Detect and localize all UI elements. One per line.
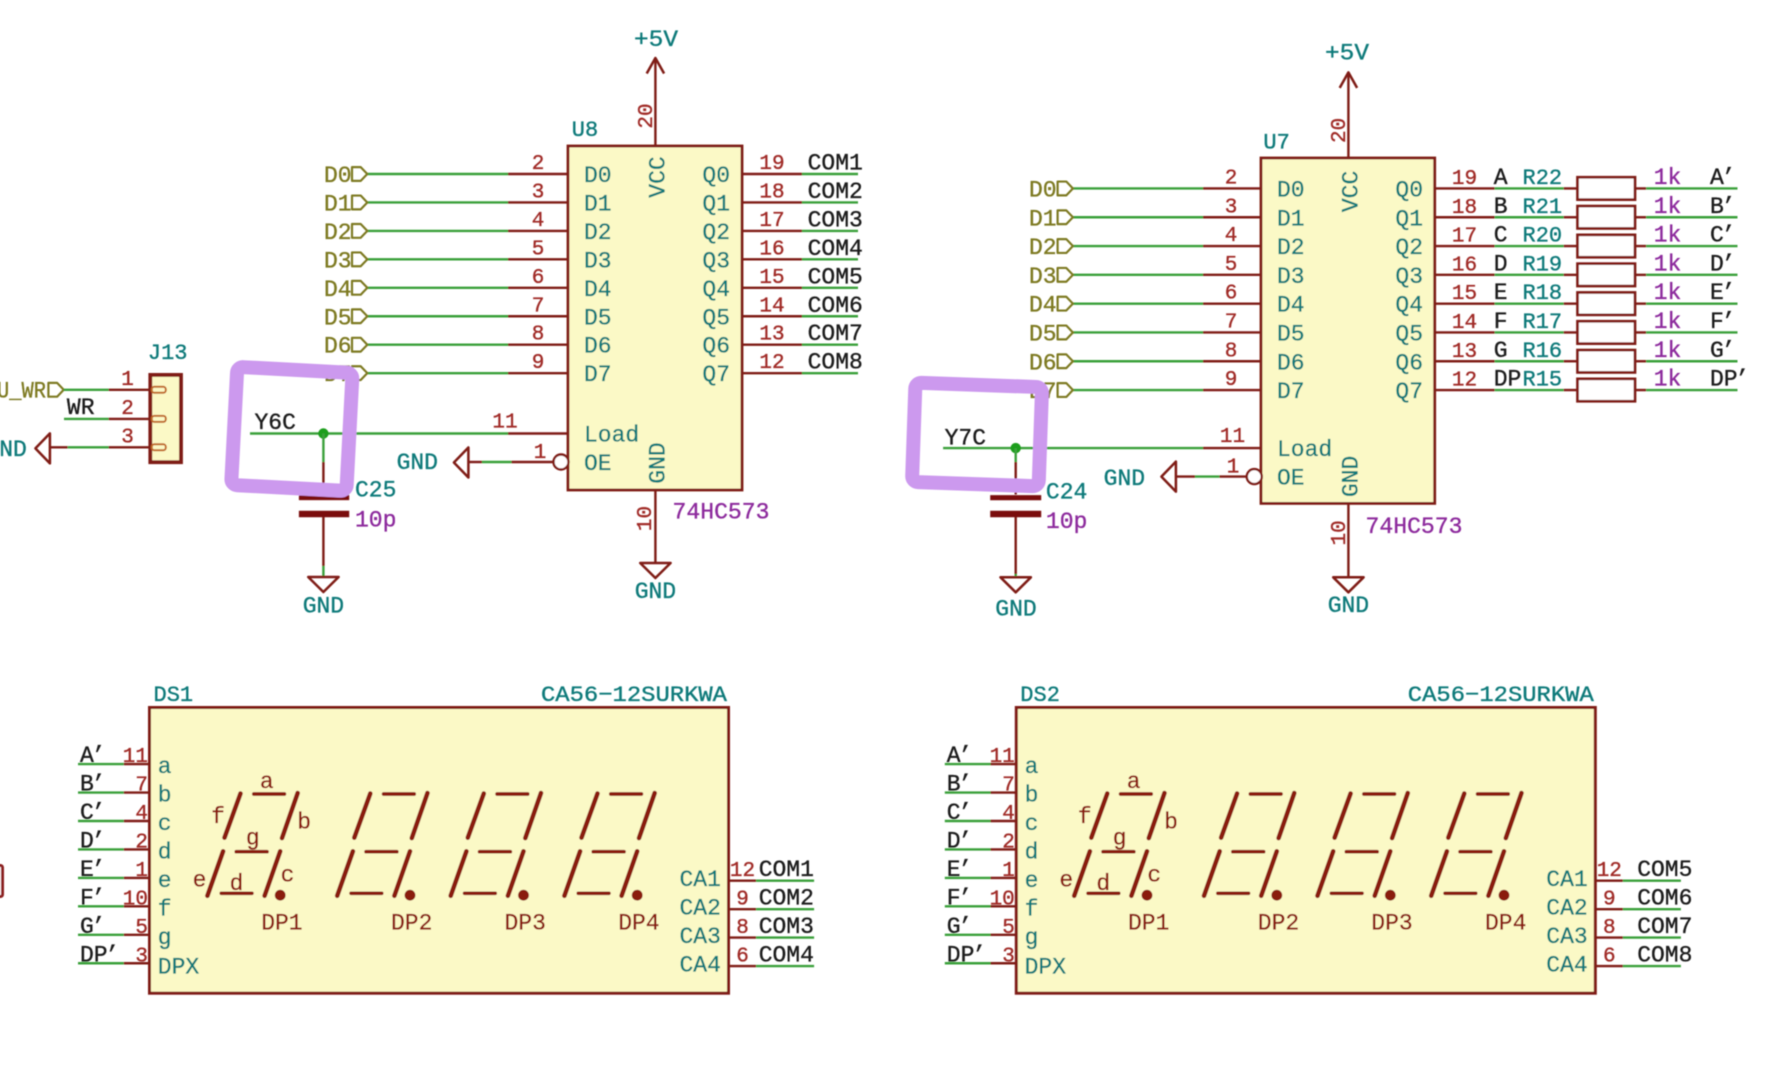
svg-text:DP: DP — [1494, 367, 1522, 393]
U8 pin 16 (Q3) — [702, 238, 802, 274]
junction on Y6C net — [318, 428, 328, 438]
svg-text:e: e — [1025, 868, 1039, 894]
svg-text:16: 16 — [1452, 254, 1477, 277]
svg-text:d: d — [1096, 871, 1110, 897]
svg-text:74HC573: 74HC573 — [1366, 514, 1463, 540]
svg-text:+5V: +5V — [1325, 40, 1369, 66]
svg-text:COM6: COM6 — [808, 293, 863, 319]
svg-text:3: 3 — [1225, 196, 1238, 219]
svg-text:GND: GND — [303, 594, 344, 620]
hierarchical label U_WR (cut at edge) — [0, 379, 64, 405]
svg-text:CA2: CA2 — [1546, 896, 1587, 922]
svg-text:b: b — [297, 810, 311, 836]
wire Y6C net to U8 Load — [250, 432, 508, 434]
svg-text:8: 8 — [736, 917, 749, 940]
svg-text:17: 17 — [759, 210, 784, 233]
svg-text:a: a — [1127, 769, 1141, 795]
wire D7 to U7 — [1073, 389, 1203, 391]
svg-text:Q5: Q5 — [1395, 321, 1423, 347]
svg-text:10: 10 — [990, 888, 1015, 911]
svg-text:Y7C: Y7C — [945, 426, 986, 452]
resistor R19 1k — [1564, 264, 1647, 286]
svg-text:g: g — [1025, 925, 1039, 951]
U8 pin 20 VCC wire — [654, 58, 656, 146]
svg-text:D6: D6 — [324, 334, 352, 360]
DS1 pin 4 (c) — [124, 803, 172, 837]
wire CA1 to COM5 — [1623, 880, 1681, 882]
resistor R17 1k — [1564, 321, 1647, 343]
resistor R21 1k — [1564, 206, 1647, 228]
svg-text:GND: GND — [0, 437, 27, 463]
wire G to DS2 — [945, 934, 991, 936]
svg-text:DPX: DPX — [1025, 954, 1067, 980]
svg-text:’: ’ — [1735, 367, 1749, 393]
svg-text:11: 11 — [123, 746, 148, 769]
hierarchical label D7 (U7) — [1029, 379, 1073, 405]
svg-text:’: ’ — [958, 743, 972, 769]
U7 pin 4 (D2) — [1203, 225, 1305, 261]
svg-text:Q3: Q3 — [1395, 264, 1423, 290]
svg-text:10p: 10p — [355, 508, 396, 534]
hierarchical label D0 (U8) — [324, 163, 367, 189]
U8 pin 17 (Q2) — [702, 210, 802, 246]
svg-text:c: c — [1147, 862, 1161, 888]
svg-text:e: e — [1059, 867, 1073, 893]
svg-text:D2: D2 — [584, 220, 612, 246]
svg-text:WR: WR — [67, 395, 95, 421]
svg-text:GND: GND — [995, 597, 1036, 623]
DS1 pin 2 (d) — [124, 831, 172, 865]
svg-text:’: ’ — [958, 857, 972, 883]
svg-text:GND: GND — [1339, 456, 1365, 497]
U8 pin 6 (D4) — [508, 267, 612, 303]
wire U8 Q0 to COM1 — [802, 173, 858, 175]
wire D0 to U8 — [367, 173, 508, 175]
U8 pin 11 Load — [492, 412, 639, 449]
svg-text:1k: 1k — [1654, 280, 1682, 306]
U8 pin 10 GND wire — [654, 490, 656, 563]
wire U8 Q7 to COM8 — [802, 372, 858, 374]
DS1 pin 5 (g) — [124, 917, 172, 951]
svg-text:VCC: VCC — [1339, 171, 1365, 212]
wire CA1 to COM1 — [756, 880, 814, 882]
partial component box at left edge — [0, 866, 3, 897]
U7 pin 12 (Q7) — [1395, 370, 1494, 406]
DS2 pin 10 (f) — [990, 888, 1039, 922]
DS2 7-segment digit 2 — [1204, 793, 1294, 896]
svg-text:7: 7 — [135, 775, 148, 798]
wire DP to DS2 — [945, 962, 991, 964]
hierarchical label D3 (U7) — [1029, 264, 1073, 290]
svg-text:1k: 1k — [1654, 165, 1682, 191]
hierarchical label D1 (U8) — [324, 191, 367, 217]
wire D3 to U7 — [1073, 274, 1203, 276]
svg-text:COM1: COM1 — [808, 151, 863, 177]
svg-text:DP: DP — [1710, 367, 1738, 393]
wire D4 to U7 — [1073, 302, 1203, 304]
U7 pin 2 (D0) — [1203, 167, 1305, 203]
wire U7 Q0 to R22 — [1495, 187, 1564, 189]
svg-text:’: ’ — [958, 914, 972, 940]
wire F to DS1 — [78, 905, 124, 907]
svg-text:5: 5 — [1225, 254, 1238, 277]
DS2 pin 5 (g) — [991, 917, 1039, 951]
U7 pin 1 OE with bubble — [1219, 457, 1304, 492]
wire CA2 to COM6 — [1623, 908, 1681, 910]
svg-text:D1: D1 — [324, 191, 352, 217]
DS1 7-segment digit 1 — [207, 793, 297, 896]
svg-text:’: ’ — [1722, 251, 1736, 277]
svg-text:2: 2 — [1002, 831, 1015, 854]
svg-text:14: 14 — [759, 295, 784, 318]
wire U8 Q1 to COM2 — [802, 201, 858, 203]
wire G to DS1 — [78, 934, 124, 936]
U7 pin 17 (Q2) — [1395, 226, 1494, 261]
svg-text:3: 3 — [135, 945, 148, 968]
svg-text:D7: D7 — [1277, 379, 1305, 405]
IC U7 74HC573 body — [1261, 158, 1435, 503]
svg-text:CA3: CA3 — [679, 924, 720, 950]
DS1 7-segment digit 3 — [451, 793, 541, 896]
svg-text:CA4: CA4 — [679, 953, 720, 979]
svg-text:5: 5 — [1002, 917, 1015, 940]
svg-text:c: c — [281, 862, 295, 888]
svg-text:20: 20 — [1329, 118, 1352, 143]
DS2 pin 4 (c) — [991, 803, 1039, 837]
svg-text:f: f — [1078, 804, 1092, 830]
svg-text:’: ’ — [1722, 194, 1736, 220]
svg-text:Q6: Q6 — [1395, 350, 1423, 376]
power symbol GND (below C25) — [303, 577, 344, 620]
resistor R18 1k — [1564, 292, 1647, 314]
DS2 pin 8 (CA3) — [1546, 917, 1623, 950]
svg-text:COM4: COM4 — [759, 943, 814, 969]
svg-text:G: G — [1494, 338, 1508, 364]
svg-text:5: 5 — [532, 238, 545, 261]
svg-text:COM4: COM4 — [808, 236, 863, 262]
svg-text:Q5: Q5 — [702, 305, 730, 331]
svg-text:g: g — [158, 925, 172, 951]
svg-text:19: 19 — [1452, 168, 1477, 191]
svg-text:VCC: VCC — [646, 156, 672, 197]
svg-text:g: g — [246, 825, 260, 851]
svg-text:18: 18 — [759, 181, 784, 204]
svg-text:D0: D0 — [1029, 177, 1057, 203]
svg-text:10: 10 — [1329, 520, 1352, 545]
wire U8 Q2 to COM3 — [802, 230, 858, 232]
wire C25 to GND — [322, 566, 324, 577]
wire U7 Q3 to R19 — [1495, 274, 1564, 276]
svg-text:R20: R20 — [1523, 224, 1563, 249]
svg-text:’: ’ — [1722, 165, 1736, 191]
svg-text:Load: Load — [584, 423, 639, 449]
wire R22 to A&#8217; — [1646, 187, 1737, 189]
svg-text:Q0: Q0 — [702, 163, 730, 189]
segment labels a-g on DS2 digit 1 — [1059, 769, 1178, 897]
svg-text:’: ’ — [1722, 338, 1736, 364]
svg-text:b: b — [1025, 783, 1039, 809]
svg-text:C25: C25 — [355, 477, 396, 503]
svg-text:’: ’ — [92, 885, 106, 911]
J13 pin 1 — [109, 369, 166, 393]
svg-text:d: d — [158, 839, 172, 865]
wire GND to J13 pin 3 — [68, 446, 109, 448]
svg-text:9: 9 — [532, 352, 545, 375]
wire U_WR to J13 pin 1 — [64, 389, 109, 391]
power symbol +5V (U8) — [634, 27, 678, 74]
svg-text:D3: D3 — [1029, 264, 1057, 290]
svg-text:c: c — [158, 811, 172, 837]
svg-text:COM6: COM6 — [1637, 886, 1692, 912]
svg-text:20: 20 — [636, 103, 659, 128]
svg-text:DP2: DP2 — [391, 911, 432, 937]
DS2 7-segment digit 4 — [1431, 793, 1521, 896]
U7 pin 3 (D1) — [1203, 196, 1305, 232]
svg-text:D2: D2 — [1029, 235, 1057, 261]
svg-text:Q1: Q1 — [1395, 206, 1423, 232]
svg-text:’: ’ — [92, 772, 106, 798]
svg-text:COM2: COM2 — [759, 886, 814, 912]
DS2 7-segment digit 3 — [1318, 793, 1408, 896]
svg-text:f: f — [1025, 896, 1039, 922]
hierarchical label D5 (U7) — [1029, 321, 1073, 347]
svg-text:a: a — [1025, 754, 1039, 780]
wire OE to GND flag (U8) — [482, 461, 512, 463]
U7 pin 5 (D3) — [1203, 254, 1305, 290]
svg-text:15: 15 — [1452, 283, 1477, 306]
wire U8 Q5 to COM6 — [802, 315, 858, 317]
svg-text:DP1: DP1 — [261, 911, 302, 937]
U8 pin 19 (Q0) — [702, 153, 802, 189]
svg-text:DP2: DP2 — [1258, 911, 1299, 937]
svg-text:D2: D2 — [1277, 235, 1305, 261]
svg-text:D3: D3 — [584, 248, 612, 274]
svg-text:COM7: COM7 — [1637, 914, 1692, 940]
svg-text:D6: D6 — [584, 334, 612, 360]
display DS1 CA56-12SURKWA body — [150, 708, 729, 994]
svg-text:1k: 1k — [1654, 309, 1682, 335]
svg-text:’: ’ — [92, 914, 106, 940]
annotation highlight box around Y6C — [231, 367, 352, 491]
svg-text:D1: D1 — [1277, 206, 1305, 232]
power symbol GND at U8 OE — [397, 448, 482, 478]
svg-text:C24: C24 — [1046, 480, 1087, 506]
svg-text:d: d — [1025, 839, 1039, 865]
svg-text:18: 18 — [1452, 197, 1477, 220]
svg-text:D2: D2 — [324, 220, 352, 246]
svg-text:Q4: Q4 — [702, 277, 730, 303]
wire U7 Q4 to R18 — [1495, 302, 1564, 304]
junction on Y7C net — [1011, 443, 1021, 453]
svg-text:b: b — [1164, 810, 1178, 836]
power symbol GND at J13 pin 3 (cut at edge) — [0, 433, 68, 463]
svg-text:5: 5 — [135, 917, 148, 940]
hierarchical label D5 (U8) — [324, 305, 367, 331]
svg-text:D5: D5 — [1029, 321, 1057, 347]
svg-text:12: 12 — [1452, 370, 1477, 393]
svg-text:CA56−12SURKWA: CA56−12SURKWA — [541, 683, 728, 708]
U8 pin 3 (D1) — [508, 181, 612, 217]
svg-text:1k: 1k — [1654, 338, 1682, 364]
svg-text:3: 3 — [1002, 945, 1015, 968]
svg-text:Load: Load — [1277, 437, 1332, 463]
svg-text:D0: D0 — [584, 163, 612, 189]
svg-text:D: D — [1494, 251, 1508, 277]
svg-text:1: 1 — [121, 369, 134, 392]
svg-text:6: 6 — [1603, 946, 1616, 969]
svg-text:1k: 1k — [1654, 367, 1682, 393]
wire E to DS1 — [78, 877, 124, 879]
svg-text:1k: 1k — [1654, 194, 1682, 220]
wire WR to J13 pin 2 — [64, 418, 109, 420]
svg-text:A: A — [1494, 165, 1508, 191]
DS2 pin 6 (CA4) — [1546, 946, 1623, 979]
U8 pin 12 (Q7) — [702, 352, 802, 388]
U7 pin 13 (Q6) — [1395, 341, 1494, 377]
svg-text:1: 1 — [1227, 457, 1240, 480]
U8 pin 18 (Q1) — [702, 181, 802, 217]
svg-text:COM2: COM2 — [808, 179, 863, 205]
svg-text:R15: R15 — [1523, 368, 1563, 393]
wire D to DS2 — [945, 848, 991, 850]
wire CA2 to COM2 — [756, 908, 814, 910]
U7 pin 16 (Q3) — [1395, 254, 1494, 290]
svg-text:9: 9 — [1225, 369, 1238, 392]
resistor R15 1k — [1564, 379, 1647, 401]
svg-text:g: g — [1113, 825, 1127, 851]
svg-text:’: ’ — [1722, 309, 1736, 335]
svg-text:R21: R21 — [1523, 195, 1563, 220]
resistor R20 1k — [1564, 235, 1647, 257]
svg-text:2: 2 — [532, 153, 545, 176]
svg-text:10: 10 — [635, 506, 658, 531]
svg-text:R22: R22 — [1523, 166, 1563, 191]
DS1 pin 9 (CA2) — [679, 889, 756, 922]
wire U7 Q7 to R15 — [1495, 389, 1564, 391]
svg-text:15: 15 — [759, 267, 784, 290]
svg-text:’: ’ — [92, 800, 106, 826]
U7 pin 10 GND wire — [1347, 503, 1349, 577]
svg-text:4: 4 — [532, 210, 545, 233]
wire CA4 to COM8 — [1623, 965, 1681, 967]
U7 pin 18 (Q1) — [1395, 197, 1494, 233]
wire A to DS2 — [945, 763, 991, 765]
svg-text:11: 11 — [1220, 426, 1245, 449]
svg-text:D4: D4 — [1029, 293, 1057, 319]
svg-text:DP: DP — [947, 942, 975, 968]
svg-text:12: 12 — [730, 860, 755, 883]
svg-text:OE: OE — [584, 451, 612, 477]
svg-text:f: f — [158, 896, 172, 922]
svg-text:CA1: CA1 — [679, 867, 720, 893]
wire C to DS1 — [78, 820, 124, 822]
svg-text:D6: D6 — [1277, 350, 1305, 376]
svg-text:’: ’ — [92, 857, 106, 883]
svg-text:R16: R16 — [1523, 339, 1563, 364]
U7 pin 8 (D6) — [1203, 340, 1305, 376]
hierarchical label D2 (U7) — [1029, 235, 1073, 261]
svg-text:GND: GND — [635, 579, 676, 605]
U8 pin 7 (D5) — [508, 295, 612, 331]
U7 pin 7 (D5) — [1203, 311, 1305, 347]
svg-text:12: 12 — [1597, 860, 1622, 883]
svg-text:7: 7 — [1225, 311, 1238, 334]
svg-text:COM5: COM5 — [1637, 857, 1692, 883]
DS2 pin 9 (CA2) — [1546, 889, 1623, 922]
wire D4 to U8 — [367, 287, 508, 289]
wire U8 Q3 to COM4 — [802, 258, 858, 260]
wire U7 Q5 to R17 — [1495, 331, 1564, 333]
hierarchical label D2 (U8) — [324, 220, 367, 246]
wire R15 to DP&#8217; — [1646, 389, 1737, 391]
svg-text:’: ’ — [958, 885, 972, 911]
DS1 pin 11 (a) — [123, 746, 172, 780]
wire B to DS2 — [945, 791, 991, 793]
svg-text:’: ’ — [958, 772, 972, 798]
svg-text:’: ’ — [92, 743, 106, 769]
wire E to DS2 — [945, 877, 991, 879]
svg-text:D1: D1 — [584, 191, 612, 217]
svg-text:2: 2 — [1225, 167, 1238, 190]
svg-text:13: 13 — [1452, 341, 1477, 364]
svg-text:7: 7 — [532, 295, 545, 318]
svg-text:’: ’ — [972, 942, 986, 968]
DS2 pin 7 (b) — [991, 775, 1039, 809]
svg-text:Q4: Q4 — [1395, 293, 1423, 319]
svg-text:CA4: CA4 — [1546, 953, 1587, 979]
power symbol +5V (U7) — [1325, 40, 1369, 88]
wire OE to GND flag (U7) — [1195, 475, 1219, 477]
wire R18 to E&#8217; — [1646, 302, 1737, 304]
hierarchical label D7 (U8) — [324, 362, 367, 388]
DS1 pin 1 (e) — [124, 860, 172, 894]
svg-text:Q2: Q2 — [1395, 235, 1423, 261]
svg-text:e: e — [158, 868, 172, 894]
U7 pin 6 (D4) — [1203, 283, 1305, 319]
svg-text:COM5: COM5 — [808, 264, 863, 290]
svg-text:DP3: DP3 — [504, 911, 545, 937]
svg-text:D5: D5 — [324, 305, 352, 331]
svg-text:DPX: DPX — [158, 954, 200, 980]
svg-text:U7: U7 — [1263, 131, 1289, 156]
capacitor C24 — [990, 462, 1041, 574]
svg-text:DS1: DS1 — [154, 683, 194, 708]
wire CA3 to COM7 — [1623, 936, 1681, 938]
svg-text:1: 1 — [534, 442, 547, 465]
svg-text:14: 14 — [1452, 312, 1477, 335]
wire D0 to U7 — [1073, 187, 1203, 189]
svg-text:Q3: Q3 — [702, 248, 730, 274]
wire U7 Q1 to R21 — [1495, 216, 1564, 218]
svg-text:F: F — [1494, 309, 1508, 335]
svg-text:CA2: CA2 — [679, 896, 720, 922]
U8 pin 8 (D6) — [508, 324, 612, 360]
wire D5 to U8 — [367, 315, 508, 317]
svg-text:e: e — [193, 867, 207, 893]
wire U8 Q6 to COM7 — [802, 344, 858, 346]
wire D6 to U8 — [367, 344, 508, 346]
svg-text:d: d — [230, 871, 244, 897]
wire B to DS1 — [78, 791, 124, 793]
DS1 pin 12 (CA1) — [679, 860, 756, 893]
svg-text:1k: 1k — [1654, 223, 1682, 249]
hierarchical label D4 (U7) — [1029, 293, 1073, 319]
svg-text:4: 4 — [1002, 803, 1015, 826]
svg-text:COM3: COM3 — [808, 207, 863, 233]
svg-text:6: 6 — [1225, 283, 1238, 306]
svg-text:8: 8 — [532, 324, 545, 347]
svg-text:1k: 1k — [1654, 251, 1682, 277]
